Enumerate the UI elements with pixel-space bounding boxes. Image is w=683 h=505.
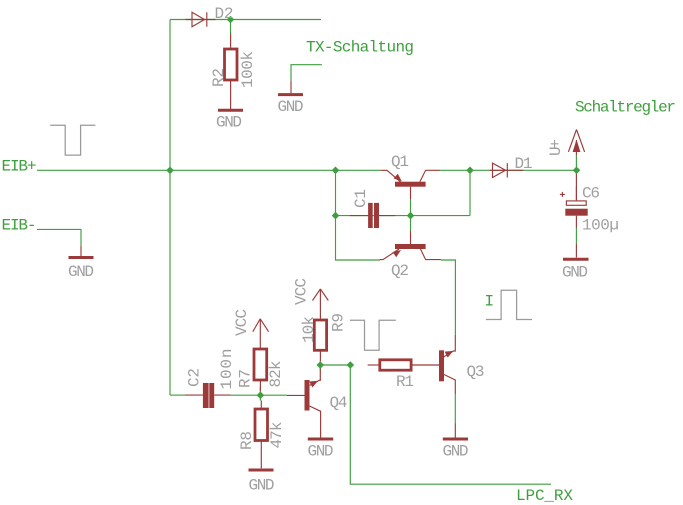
svg-text:GND: GND bbox=[443, 443, 469, 461]
svg-text:LPC_RX: LPC_RX bbox=[516, 487, 573, 505]
svg-text:C6: C6 bbox=[582, 185, 600, 203]
svg-text:U+: U+ bbox=[547, 139, 565, 156]
svg-text:R2: R2 bbox=[210, 68, 228, 87]
svg-text:C2: C2 bbox=[186, 368, 204, 387]
svg-text:GND: GND bbox=[278, 98, 304, 116]
svg-text:R1: R1 bbox=[396, 373, 414, 391]
svg-text:R8: R8 bbox=[238, 431, 256, 450]
svg-text:R9: R9 bbox=[330, 313, 348, 332]
svg-text:GND: GND bbox=[216, 114, 242, 132]
svg-text:100k: 100k bbox=[239, 51, 257, 88]
svg-text:Q1: Q1 bbox=[391, 153, 409, 171]
svg-text:Q4: Q4 bbox=[330, 394, 348, 412]
svg-text:Schaltregler: Schaltregler bbox=[575, 98, 676, 116]
svg-text:Q3: Q3 bbox=[467, 363, 485, 381]
svg-text:VCC: VCC bbox=[293, 278, 311, 305]
svg-text:EIB-: EIB- bbox=[2, 217, 37, 235]
svg-text:EIB+: EIB+ bbox=[2, 158, 37, 176]
svg-text:GND: GND bbox=[308, 443, 334, 461]
svg-text:TX-Schaltung: TX-Schaltung bbox=[306, 38, 414, 56]
svg-text:C1: C1 bbox=[352, 189, 370, 208]
svg-text:D2: D2 bbox=[215, 5, 234, 23]
svg-text:100µ: 100µ bbox=[582, 216, 619, 234]
svg-text:I: I bbox=[485, 293, 495, 311]
svg-text:R7: R7 bbox=[237, 369, 255, 388]
svg-text:100n: 100n bbox=[218, 349, 236, 390]
svg-text:47k: 47k bbox=[268, 422, 286, 449]
svg-text:82k: 82k bbox=[267, 361, 285, 388]
svg-text:GND: GND bbox=[562, 264, 588, 282]
svg-text:D1: D1 bbox=[515, 155, 533, 173]
svg-text:GND: GND bbox=[68, 263, 94, 281]
svg-text:GND: GND bbox=[249, 477, 275, 495]
svg-text:VCC: VCC bbox=[233, 309, 251, 336]
svg-text:10k: 10k bbox=[300, 316, 318, 343]
svg-text:Q2: Q2 bbox=[391, 262, 409, 280]
